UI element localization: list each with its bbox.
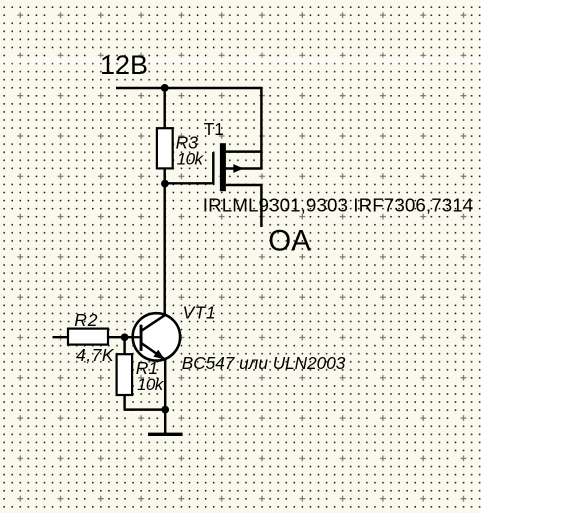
svg-text:10k: 10k <box>137 375 165 394</box>
svg-text:R2: R2 <box>74 310 98 330</box>
svg-text:VT1: VT1 <box>183 302 217 322</box>
svg-text:BC547 или ULN2003: BC547 или ULN2003 <box>182 353 346 373</box>
svg-text:12В: 12В <box>100 50 148 80</box>
svg-text:T1: T1 <box>204 119 224 139</box>
svg-text:IRLML9301,9303 IRF7306,7314: IRLML9301,9303 IRF7306,7314 <box>203 195 474 216</box>
svg-text:ОА: ОА <box>268 225 311 258</box>
svg-text:4,7K: 4,7K <box>76 345 115 365</box>
svg-text:10k: 10k <box>177 150 205 169</box>
